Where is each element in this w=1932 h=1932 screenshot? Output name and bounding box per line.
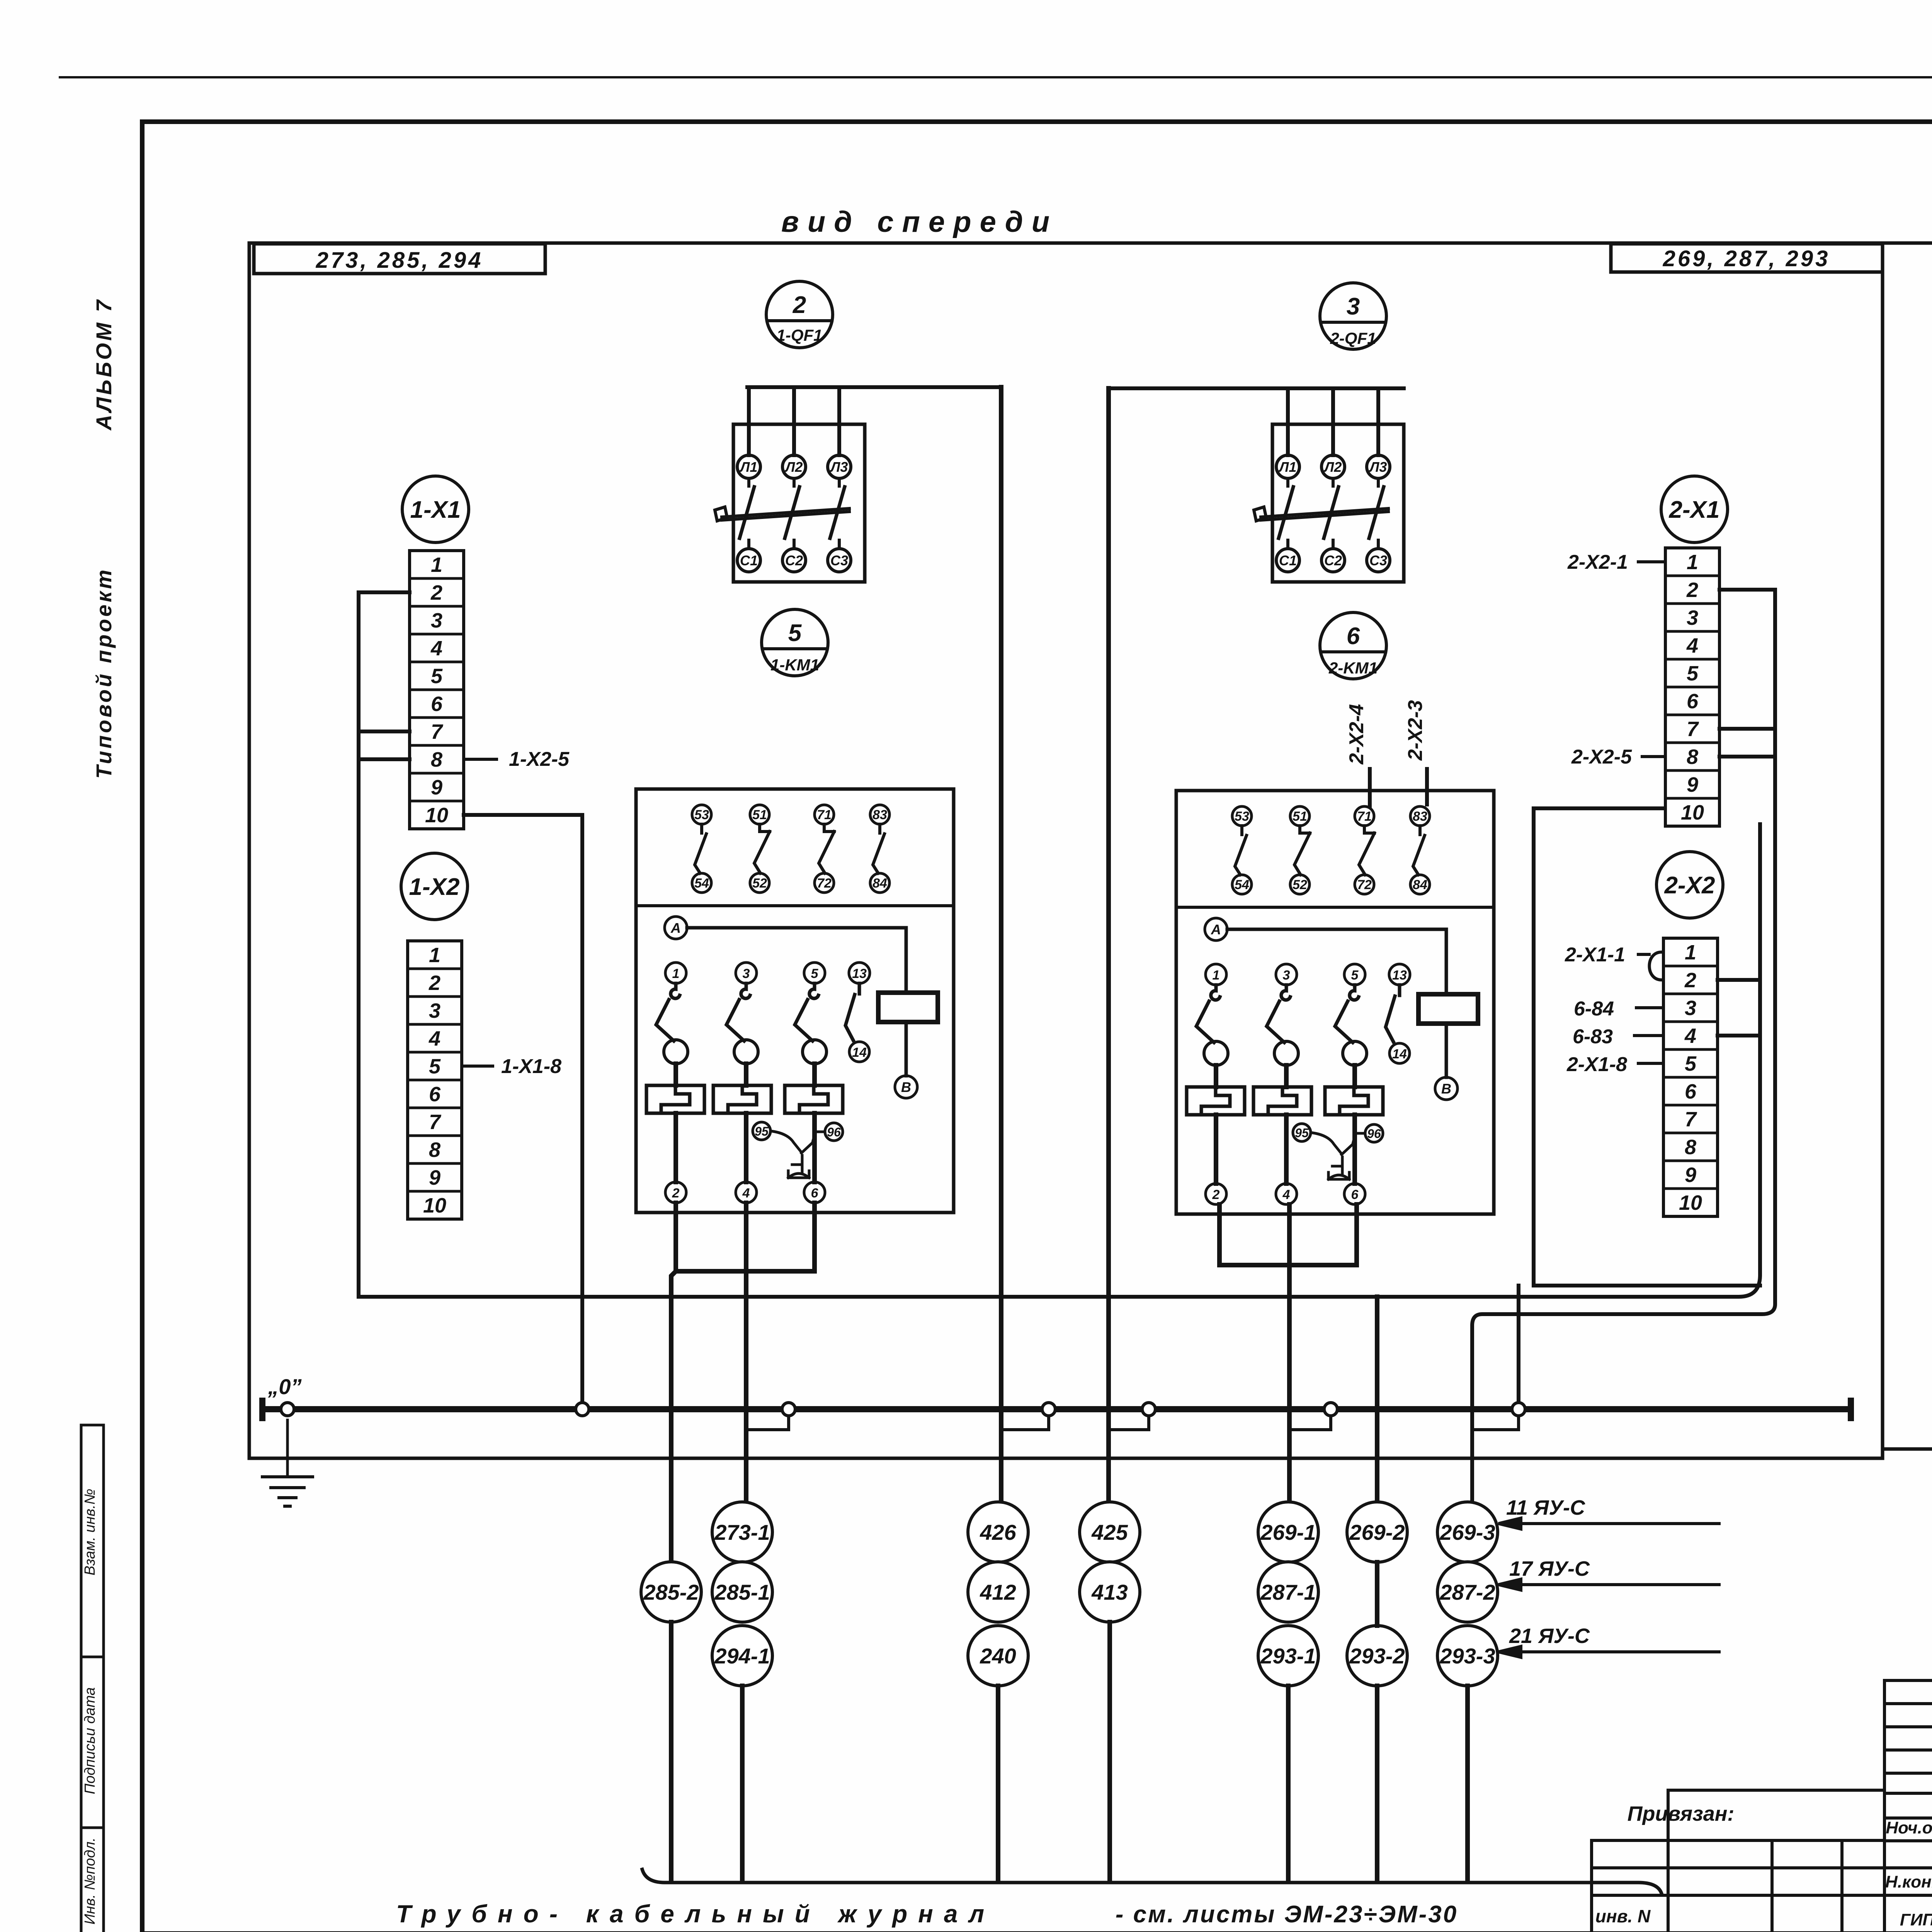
- svg-text:Н.контр.: Н.контр.: [1885, 1872, 1932, 1891]
- svg-text:287-2: 287-2: [1439, 1580, 1495, 1604]
- svg-text:вид спереди: вид спереди: [781, 206, 1058, 238]
- svg-text:1-KM1: 1-KM1: [770, 656, 819, 674]
- svg-text:2-KM1: 2-KM1: [1328, 659, 1378, 677]
- svg-text:294-1: 294-1: [714, 1644, 770, 1668]
- svg-text:2-X1-1: 2-X1-1: [1565, 944, 1625, 966]
- svg-text:Взам. инв.№: Взам. инв.№: [82, 1489, 98, 1575]
- svg-text:2-X1: 2-X1: [1669, 497, 1720, 523]
- svg-text:413: 413: [1091, 1580, 1128, 1604]
- svg-text:„0”: „0”: [267, 1374, 301, 1399]
- svg-text:1-X2: 1-X2: [409, 874, 460, 900]
- svg-text:Привязан:: Привязан:: [1628, 1802, 1735, 1825]
- svg-text:269-2: 269-2: [1349, 1520, 1405, 1544]
- svg-text:3: 3: [1347, 293, 1360, 320]
- svg-text:293-1: 293-1: [1260, 1644, 1316, 1668]
- svg-text:Подписьи дата: Подписьи дата: [82, 1687, 98, 1794]
- svg-text:- см. листы ЭМ-23÷ЭМ-30: - см. листы ЭМ-23÷ЭМ-30: [1116, 1901, 1458, 1928]
- svg-text:285-1: 285-1: [714, 1580, 770, 1604]
- svg-text:425: 425: [1091, 1520, 1128, 1544]
- svg-text:Трубно- кабельный журнал: Трубно- кабельный журнал: [396, 1900, 995, 1928]
- svg-text:2-X2-5: 2-X2-5: [1571, 746, 1632, 768]
- svg-text:293-3: 293-3: [1439, 1644, 1495, 1668]
- svg-text:269-3: 269-3: [1439, 1520, 1495, 1544]
- svg-text:Ноч.отд.: Ноч.отд.: [1886, 1818, 1932, 1837]
- svg-text:269-1: 269-1: [1260, 1520, 1316, 1544]
- svg-text:2-X2: 2-X2: [1664, 872, 1715, 899]
- svg-text:ГИП: ГИП: [1900, 1910, 1932, 1929]
- svg-text:2-X2-3: 2-X2-3: [1404, 700, 1427, 761]
- svg-text:1-X2-5: 1-X2-5: [509, 748, 570, 770]
- svg-text:426: 426: [980, 1520, 1016, 1544]
- svg-text:1-X1: 1-X1: [410, 497, 461, 523]
- svg-text:АЛЬБОМ 7: АЛЬБОМ 7: [92, 298, 116, 431]
- svg-text:293-2: 293-2: [1349, 1644, 1405, 1668]
- svg-text:инв. N: инв. N: [1595, 1906, 1651, 1926]
- svg-text:269, 287, 293: 269, 287, 293: [1663, 246, 1830, 271]
- svg-text:6-83: 6-83: [1573, 1026, 1613, 1048]
- svg-text:273-1: 273-1: [714, 1520, 770, 1544]
- svg-text:287-1: 287-1: [1260, 1580, 1316, 1604]
- svg-text:2-X2-4: 2-X2-4: [1345, 704, 1368, 765]
- svg-text:2-X1-8: 2-X1-8: [1566, 1053, 1627, 1076]
- svg-text:17 ЯУ-С: 17 ЯУ-С: [1509, 1557, 1590, 1580]
- svg-text:21 ЯУ-С: 21 ЯУ-С: [1509, 1624, 1590, 1648]
- svg-text:Типовой проект: Типовой проект: [92, 567, 116, 779]
- svg-text:412: 412: [980, 1580, 1016, 1604]
- svg-text:6: 6: [1347, 623, 1360, 650]
- svg-text:1-QF1: 1-QF1: [776, 326, 822, 345]
- svg-text:2-QF1: 2-QF1: [1330, 329, 1376, 348]
- svg-text:Инв. №подл.: Инв. №подл.: [82, 1837, 98, 1924]
- svg-text:2-X2-1: 2-X2-1: [1567, 551, 1628, 573]
- svg-text:6-84: 6-84: [1574, 998, 1614, 1020]
- svg-text:2: 2: [793, 292, 806, 318]
- svg-text:1-X1-8: 1-X1-8: [501, 1055, 561, 1078]
- svg-text:11 ЯУ-С: 11 ЯУ-С: [1506, 1496, 1585, 1519]
- svg-text:240: 240: [980, 1644, 1016, 1668]
- svg-text:5: 5: [788, 620, 802, 646]
- svg-text:285-2: 285-2: [643, 1580, 699, 1604]
- svg-text:273, 285, 294: 273, 285, 294: [316, 248, 483, 273]
